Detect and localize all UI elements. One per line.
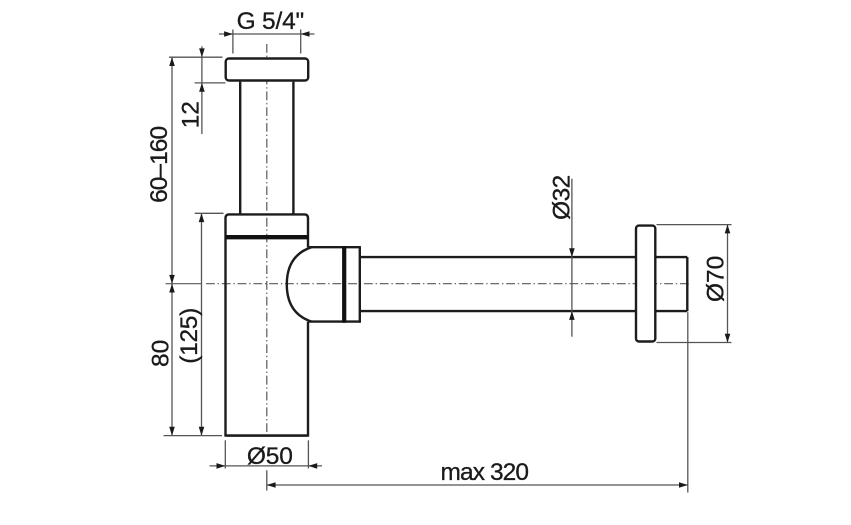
dimension O50 arrowheads (217, 463, 318, 469)
dimension max 320 arrowheads (267, 482, 688, 488)
svg-text:80: 80 (148, 340, 175, 367)
dimension 12 line (201, 46, 203, 134)
vertical centerline of trap body (266, 44, 268, 434)
extension line body bottom left (164, 435, 223, 437)
dimension (125) line (201, 213, 203, 435)
wall pipe stub (655, 257, 687, 311)
svg-text:(125): (125) (176, 308, 203, 364)
dimension max 320 tick at body axis (266, 470, 268, 490)
dimension G 5/4" arrowheads (224, 31, 309, 37)
horizontal centerline of outlet pipe (166, 283, 691, 285)
svg-text:12: 12 (178, 101, 205, 128)
dimension max 320 line (267, 484, 688, 486)
elbow nut thick joint line (342, 246, 346, 323)
svg-text:max 320: max 320 (440, 459, 528, 486)
svg-text:60–160: 60–160 (146, 127, 173, 203)
dimension G 5/4" extension lines (233, 30, 301, 54)
top flange (G 5/4 nut) (226, 59, 309, 81)
dimension 12 arrowheads (199, 48, 205, 91)
extension line flange top (169, 56, 223, 58)
svg-text:Ø32: Ø32 (549, 175, 576, 220)
dimension O70 arrowheads (725, 225, 731, 343)
elbow nut right edge (359, 246, 361, 323)
dimension 60-160 / 80 arrowheads (169, 57, 175, 435)
dimension 60-160 / 80 line (171, 57, 173, 435)
dimension O50 extension lines (225, 440, 308, 468)
extension line flange bottom (195, 82, 226, 84)
horizontal outlet pipe (360, 257, 636, 311)
collar joint thick line (226, 235, 309, 239)
dimension (125) arrowheads (199, 213, 205, 435)
trap body with collar (224, 214, 309, 435)
extension line collar top (195, 212, 224, 214)
dimension max 320 extension line right (687, 312, 689, 492)
dimension O50 line (210, 465, 323, 467)
elbow outlet housing (287, 247, 360, 321)
dimension O32 line (571, 179, 573, 337)
dimension O70 line (727, 225, 729, 343)
dimension G 5/4" line (219, 33, 315, 35)
inlet pipe (240, 82, 293, 214)
svg-text:Ø50: Ø50 (247, 443, 293, 470)
dimension O70 extension lines (657, 225, 732, 343)
svg-text:Ø70: Ø70 (702, 256, 729, 302)
dimension O32 arrowheads (569, 248, 575, 320)
svg-text:G 5/4": G 5/4" (237, 8, 304, 35)
wall flange (636, 226, 655, 342)
